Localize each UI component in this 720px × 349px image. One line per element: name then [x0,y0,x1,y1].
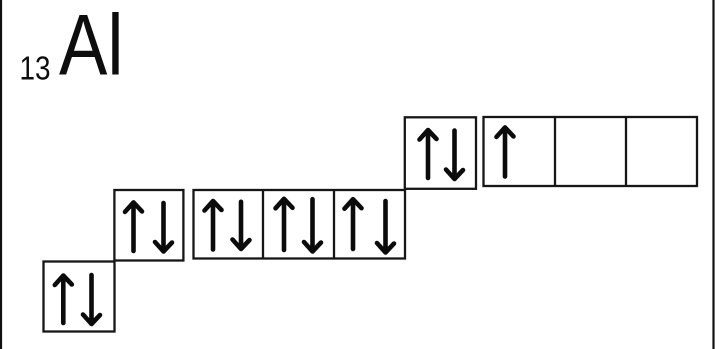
up arrow 1s [55,276,72,324]
up arrow 3p cell 1 [497,127,514,176]
svg-text:13: 13 [20,50,51,87]
orbital group 2p outer box [194,190,406,259]
down arrow 3s [446,131,463,180]
atomic number 13 [20,50,51,87]
3p cell divider 1 [554,117,556,186]
2p cell divider 2 [333,190,335,259]
down arrow 2p cell 1 [233,202,250,249]
svg-text:Al: Al [59,0,124,93]
down arrow 1s [83,275,100,324]
down arrow 2s [155,203,172,252]
orbital box 2s [114,190,183,261]
up arrow 2p cell 3 [345,199,362,249]
2p cell divider 1 [262,190,264,259]
down arrow 2p cell 3 [377,201,394,253]
up arrow 2s [125,202,142,251]
orbital box 3s [405,117,476,189]
left edge rule [0,0,2,349]
orbital group 3p outer box [484,117,698,186]
down arrow 2p cell 2 [304,199,321,251]
3p cell divider 2 [625,117,627,186]
orbital box 1s [44,262,115,332]
up arrow 3s [420,130,437,178]
element symbol Al [59,0,124,93]
right edge rule [712,0,714,349]
up arrow 2p cell 2 [276,199,293,250]
up arrow 2p cell 1 [205,201,222,250]
